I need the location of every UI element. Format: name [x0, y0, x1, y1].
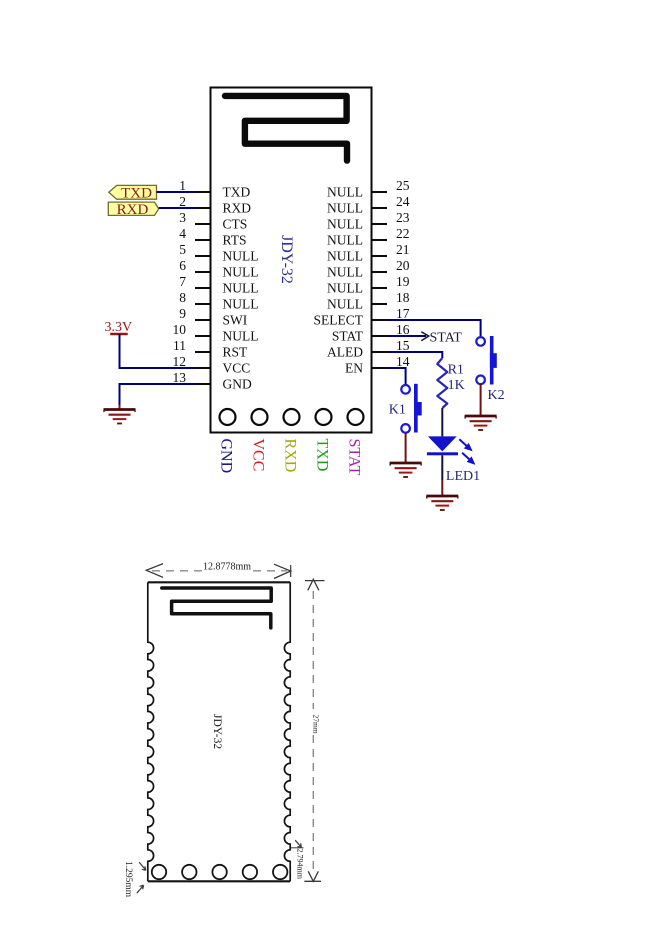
svg-text:STAT: STAT [430, 331, 463, 346]
pad RXD [284, 409, 300, 425]
wire LED1 to ground [441, 455, 443, 480]
pin 8 (NULL) stub [195, 303, 211, 305]
svg-text:NULL: NULL [327, 297, 363, 312]
svg-text:CTS: CTS [223, 217, 248, 232]
pin 12 (VCC) stub [195, 367, 211, 369]
pin 10 (NULL) stub [195, 335, 211, 337]
pin 7 (NULL) stub [195, 287, 211, 289]
switch K1 [389, 384, 422, 433]
port flag TXD [109, 185, 157, 199]
svg-text:27mm: 27mm [311, 715, 320, 734]
module outline with castellated edges [148, 581, 290, 583]
resistor R1 1K [437, 358, 447, 408]
ground [390, 463, 422, 477]
wire pin16 STAT with arrow [387, 335, 426, 337]
svg-text:1: 1 [179, 178, 186, 193]
wire pin15 ALED to R1 [387, 352, 442, 358]
svg-text:NULL: NULL [327, 265, 363, 280]
svg-text:SWI: SWI [223, 313, 248, 328]
pin 23 (NULL) stub [371, 223, 387, 225]
port flag RXD [108, 202, 158, 215]
svg-text:13: 13 [173, 370, 187, 385]
svg-text:18: 18 [396, 290, 410, 305]
ground [426, 496, 458, 510]
svg-text:VCC: VCC [223, 361, 251, 376]
pin 11 (RST) stub [195, 351, 211, 353]
svg-text:5: 5 [179, 242, 186, 257]
pin 25 (NULL) stub [371, 191, 387, 193]
pin 6 (NULL) stub [195, 271, 211, 273]
svg-text:STAT: STAT [346, 439, 363, 476]
svg-text:19: 19 [396, 274, 410, 289]
svg-text:3: 3 [179, 210, 186, 225]
svg-text:K1: K1 [389, 402, 406, 417]
dimension 1.295mm [139, 862, 146, 870]
svg-text:21: 21 [396, 242, 410, 257]
svg-text:12.8778mm: 12.8778mm [203, 562, 251, 573]
pin 24 (NULL) stub [371, 207, 387, 209]
pin 14 (EN) stub [371, 367, 387, 369]
svg-text:RTS: RTS [223, 233, 247, 248]
wire 3.3V to pin12 VCC [120, 334, 197, 368]
pin 9 (SWI) stub [195, 319, 211, 321]
svg-text:RXD: RXD [282, 439, 299, 473]
svg-text:JDY-32: JDY-32 [211, 714, 223, 749]
svg-text:2.794mm: 2.794mm [296, 849, 305, 880]
svg-text:RST: RST [223, 345, 249, 360]
svg-text:NULL: NULL [223, 265, 259, 280]
svg-text:STAT: STAT [332, 329, 364, 344]
svg-text:NULL: NULL [327, 233, 363, 248]
pad STAT [348, 409, 364, 425]
pin 22 (NULL) stub [371, 239, 387, 241]
svg-text:15: 15 [396, 338, 410, 353]
svg-text:EN: EN [345, 361, 363, 376]
svg-text:TXD: TXD [121, 185, 152, 201]
svg-text:11: 11 [173, 338, 186, 353]
svg-text:16: 16 [396, 322, 410, 337]
svg-text:NULL: NULL [327, 281, 363, 296]
pin 15 (ALED) stub [371, 351, 387, 353]
pin 20 (NULL) stub [371, 271, 387, 273]
pad GND [220, 409, 236, 425]
svg-text:TXD: TXD [223, 185, 251, 200]
svg-text:K2: K2 [488, 388, 505, 403]
svg-text:6: 6 [179, 258, 186, 273]
wire K2 to ground [480, 384, 482, 415]
svg-text:GND: GND [218, 439, 235, 474]
svg-text:NULL: NULL [223, 249, 259, 264]
svg-text:NULL: NULL [327, 185, 363, 200]
svg-text:2: 2 [179, 194, 186, 209]
svg-text:7: 7 [179, 274, 186, 289]
wire pin2 to RXD flag [159, 207, 196, 209]
svg-text:14: 14 [396, 354, 410, 369]
svg-text:RXD: RXD [223, 201, 252, 216]
svg-text:17: 17 [396, 306, 410, 321]
svg-text:NULL: NULL [327, 249, 363, 264]
LED1 [427, 436, 480, 484]
ground [104, 410, 136, 424]
svg-text:1.295mm: 1.295mm [123, 861, 133, 898]
pin 5 (NULL) stub [195, 255, 211, 257]
svg-text:24: 24 [396, 194, 410, 209]
module body U1 [211, 88, 372, 433]
svg-text:ALED: ALED [327, 345, 363, 360]
svg-text:R1: R1 [448, 363, 464, 378]
svg-text:SELECT: SELECT [314, 313, 364, 328]
svg-text:23: 23 [396, 210, 410, 225]
svg-text:1K: 1K [448, 378, 465, 393]
svg-text:NULL: NULL [327, 217, 363, 232]
ground [465, 416, 497, 430]
pad VCC [252, 409, 268, 425]
wire R1 to LED1 [441, 408, 443, 436]
pin 1 (TXD) stub [195, 191, 211, 193]
wire K1 to ground [405, 433, 407, 463]
svg-text:NULL: NULL [223, 281, 259, 296]
svg-text:JDY-32: JDY-32 [278, 235, 295, 284]
wire pin13 GND down [120, 384, 197, 405]
antenna trace inside module [225, 96, 347, 161]
svg-text:TXD: TXD [314, 439, 331, 472]
pin 18 (NULL) stub [371, 303, 387, 305]
pin 19 (NULL) stub [371, 287, 387, 289]
wire pin14 EN to K1 [387, 368, 406, 385]
wire pin17 SELECT to K2 [387, 320, 481, 336]
svg-text:20: 20 [396, 258, 410, 273]
svg-text:LED1: LED1 [446, 469, 480, 484]
svg-text:NULL: NULL [223, 329, 259, 344]
svg-text:RXD: RXD [117, 202, 149, 218]
svg-text:NULL: NULL [327, 201, 363, 216]
pin 4 (RTS) stub [195, 239, 211, 241]
antenna trace in drawing [162, 588, 271, 628]
svg-text:GND: GND [223, 377, 252, 392]
pin 13 (GND) stub [195, 383, 211, 385]
svg-text:10: 10 [173, 322, 187, 337]
pin 16 (STAT) stub [371, 335, 387, 337]
svg-text:9: 9 [179, 306, 186, 321]
pin 17 (SELECT) stub [371, 319, 387, 321]
svg-text:25: 25 [396, 178, 410, 193]
svg-text:22: 22 [396, 226, 410, 241]
svg-text:NULL: NULL [223, 297, 259, 312]
pads in drawing [152, 865, 166, 879]
pad TXD [316, 409, 332, 425]
dimension 2.794mm [291, 847, 304, 849]
svg-text:VCC: VCC [250, 439, 267, 472]
pin 21 (NULL) stub [371, 255, 387, 257]
wire pin1 to TXD flag [157, 191, 197, 193]
svg-text:4: 4 [179, 226, 186, 241]
svg-text:8: 8 [179, 290, 186, 305]
pin 2 (RXD) stub [195, 207, 211, 209]
switch K2 [476, 336, 504, 403]
svg-text:12: 12 [173, 354, 187, 369]
dimension 27mm [312, 591, 314, 709]
pin 3 (CTS) stub [195, 223, 211, 225]
